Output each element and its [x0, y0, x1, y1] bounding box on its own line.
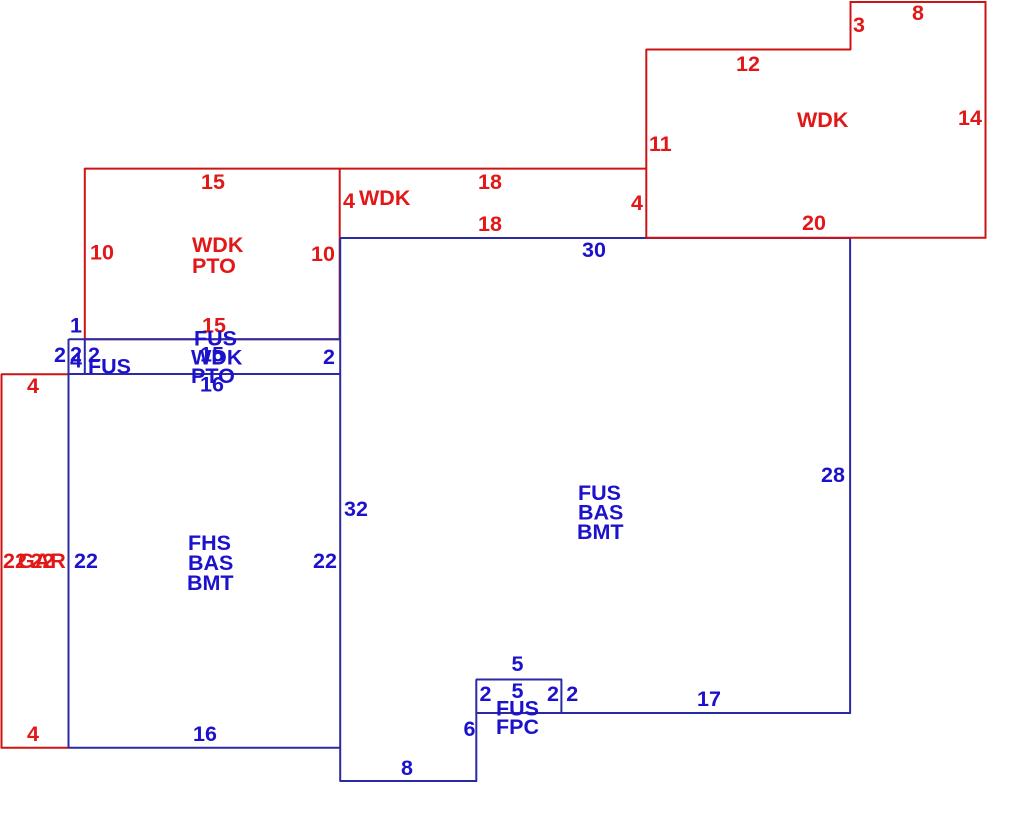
svg-text:WDK: WDK [359, 186, 411, 210]
svg-text:16: 16 [200, 373, 224, 397]
WDK deck outline: left edge [645, 49, 647, 238]
FUS entry strip: divider vertical [84, 339, 86, 375]
svg-text:18: 18 [478, 212, 502, 236]
svg-text:BMT: BMT [187, 571, 234, 595]
WDK deck outline: step top edge [646, 49, 851, 51]
svg-text:3: 3 [853, 13, 865, 37]
svg-text:22: 22 [313, 549, 337, 573]
svg-text:4: 4 [631, 191, 643, 215]
GAR garage: top edge [1, 373, 69, 375]
FUS FPC porch: right edge [560, 679, 562, 713]
svg-text:2: 2 [323, 345, 335, 369]
FUS FPC porch: left edge [475, 679, 477, 782]
WDK PTO patio: right edge / WDK strip left edge [339, 168, 341, 340]
FUS BAS BMT main area: left edge [339, 238, 341, 782]
svg-text:FPC: FPC [496, 715, 539, 739]
svg-text:PTO: PTO [192, 254, 236, 278]
FHS BAS BMT: left edge [68, 339, 70, 748]
svg-text:2: 2 [480, 682, 492, 706]
svg-text:2: 2 [54, 343, 66, 367]
WDK deck outline: upper-left step vertical [850, 1, 852, 50]
FUS BAS BMT main area: bottom edge (runs under porch) [476, 712, 851, 714]
GAR garage: bottom edge [1, 747, 69, 749]
svg-text:1: 1 [70, 314, 82, 338]
WDK PTO patio: bottom edge [85, 338, 340, 340]
svg-text:22: 22 [31, 549, 55, 573]
FUS BAS BMT main area: bottom step edge [340, 780, 477, 782]
svg-text:14: 14 [958, 106, 982, 130]
GAR garage: left edge [1, 374, 3, 749]
svg-text:20: 20 [802, 211, 826, 235]
svg-text:32: 32 [344, 497, 368, 521]
WDK deck outline: right edge [985, 1, 987, 238]
svg-text:WDK: WDK [797, 108, 849, 132]
svg-text:4: 4 [27, 722, 39, 746]
svg-text:18: 18 [478, 170, 502, 194]
svg-text:22: 22 [74, 549, 98, 573]
svg-text:11: 11 [649, 132, 672, 156]
svg-text:10: 10 [90, 241, 114, 265]
svg-text:2: 2 [547, 682, 559, 706]
svg-text:2: 2 [566, 682, 578, 706]
svg-text:5: 5 [512, 652, 524, 676]
FUS BAS BMT main area: right edge [849, 238, 851, 714]
WDK strip / WDK PTO patio: shared top edge [85, 168, 648, 170]
svg-text:8: 8 [912, 1, 924, 25]
svg-text:4: 4 [343, 189, 355, 213]
WDK deck outline: bottom edge [646, 237, 987, 239]
svg-text:12: 12 [736, 52, 760, 76]
svg-text:30: 30 [582, 238, 606, 262]
FUS BAS BMT main area: top edge [340, 237, 851, 239]
FUS entry strip: top edge [69, 338, 342, 340]
svg-text:17: 17 [697, 687, 721, 711]
svg-text:10: 10 [311, 242, 335, 266]
WDK PTO patio: left edge [84, 168, 86, 340]
svg-text:BMT: BMT [577, 520, 624, 544]
FHS BAS BMT: bottom edge [69, 747, 342, 749]
FUS entry strip: bottom edge [69, 373, 342, 375]
svg-text:8: 8 [401, 756, 413, 780]
FUS FPC porch: top edge [476, 679, 562, 681]
svg-text:6: 6 [464, 717, 476, 741]
svg-text:4: 4 [27, 374, 39, 398]
WDK deck outline: top edge [850, 1, 987, 3]
svg-text:15: 15 [201, 170, 225, 194]
svg-text:FUS: FUS [88, 355, 131, 379]
svg-text:28: 28 [821, 463, 845, 487]
svg-text:16: 16 [193, 722, 217, 746]
svg-text:4: 4 [70, 349, 82, 373]
